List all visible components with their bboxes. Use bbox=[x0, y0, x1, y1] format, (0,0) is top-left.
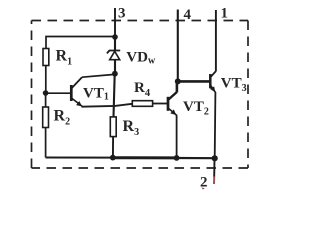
resistor R1 bbox=[43, 49, 49, 66]
wire VT2 collector to node D bbox=[176, 81, 179, 92]
resistor R4 bbox=[132, 101, 152, 107]
node D (terminal4 / VT2 collector / VT3 base junction) bbox=[175, 78, 181, 84]
node A (R1 / R2 / VT1 base junction) bbox=[43, 90, 49, 96]
zener diode VDw bbox=[107, 37, 120, 74]
wire node C down to R3 bbox=[114, 74, 115, 117]
transistor VT2 bbox=[168, 92, 177, 116]
transistor VT3 bbox=[210, 71, 216, 93]
wire top rail from R1 to node B bbox=[46, 37, 115, 49]
wire R1 bottom to node A bbox=[45, 66, 47, 94]
wire VT2 emitter to ground rail bbox=[176, 115, 178, 157]
svg-text:3: 3 bbox=[118, 6, 126, 22]
wire VT1 collector to node C bbox=[82, 74, 115, 77]
terminal 3 lead bbox=[114, 8, 116, 37]
transistor VT1 bbox=[71, 77, 83, 107]
resistor R3 bbox=[110, 117, 116, 137]
node F (R3 / rail junction) bbox=[110, 155, 116, 161]
red speck under pin label 2 bbox=[202, 187, 205, 189]
ground rail wire middle segment bbox=[113, 156, 177, 159]
resistor R2 bbox=[43, 107, 49, 128]
IC package dashed boundary bbox=[32, 21, 249, 169]
ground rail wire left segment bbox=[46, 157, 113, 159]
node B (terminal3 / R1 / VDw junction) bbox=[112, 34, 118, 40]
wire R2 bottom to ground rail bbox=[45, 128, 47, 158]
terminal 2 lead lower red segment bbox=[213, 177, 215, 185]
wire VT1 base lead bbox=[46, 92, 71, 94]
terminal 4 lead bbox=[177, 10, 179, 82]
node C (VDw / VT1 collector / R3 junction) bbox=[112, 71, 118, 77]
wire node A to R2 top bbox=[45, 93, 47, 107]
terminal 2 lead bbox=[213, 158, 215, 176]
wire node D to VT3 base bbox=[178, 80, 210, 83]
wire VT1 emitter to R4 bbox=[82, 104, 133, 107]
wire R4 to VT2 base bbox=[153, 103, 168, 105]
svg-text:1: 1 bbox=[221, 6, 229, 22]
node E (terminal 2 junction) bbox=[212, 155, 218, 161]
ground rail wire right segment bbox=[177, 157, 215, 159]
terminal 1 lead / VT3 collector line bbox=[215, 10, 217, 71]
wire VT3 emitter to node E bbox=[214, 93, 217, 159]
wire R3 bottom to ground rail bbox=[112, 137, 114, 158]
node G (VT2 emitter / rail junction) bbox=[174, 155, 180, 161]
svg-text:4: 4 bbox=[184, 7, 192, 23]
